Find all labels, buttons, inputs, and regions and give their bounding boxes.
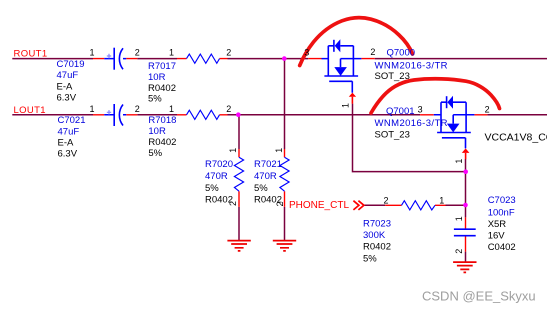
svg-text:1: 1 [454,159,464,164]
svg-text:2: 2 [275,201,285,206]
svg-text:C7019: C7019 [57,59,85,70]
svg-text:WNM2016-3/TR: WNM2016-3/TR [375,61,448,72]
svg-text:3: 3 [418,104,423,114]
svg-text:C0402: C0402 [488,242,516,253]
svg-text:1: 1 [274,148,284,153]
svg-text:SOT_23: SOT_23 [375,130,410,141]
svg-text:VCCA1V8_CODEC: VCCA1V8_CODEC [485,132,547,144]
svg-text:ROUT1: ROUT1 [14,48,48,59]
svg-text:2: 2 [228,201,238,206]
svg-text:1: 1 [228,148,238,153]
svg-text:1: 1 [341,103,351,108]
svg-text:R7023: R7023 [363,218,391,229]
svg-text:R7021: R7021 [254,159,282,170]
svg-text:300K: 300K [363,230,386,241]
svg-text:5%: 5% [148,94,162,105]
svg-text:5%: 5% [148,148,162,159]
svg-text:E-A: E-A [58,138,75,149]
svg-text:2: 2 [454,249,464,254]
svg-text:5%: 5% [205,183,219,194]
svg-text:5%: 5% [254,183,268,194]
svg-text:470R: 470R [254,171,277,182]
svg-text:PHONE_CTL: PHONE_CTL [289,200,349,211]
svg-text:10R: 10R [148,126,166,137]
svg-text:R0402: R0402 [363,242,391,253]
svg-text:R7018: R7018 [148,115,176,126]
svg-text:2: 2 [485,104,490,114]
svg-text:R7020: R7020 [205,159,233,170]
svg-text:470R: 470R [205,171,228,182]
svg-text:1: 1 [439,196,444,206]
svg-text:47uF: 47uF [58,127,80,138]
svg-text:2: 2 [226,47,231,57]
svg-text:2: 2 [384,196,389,206]
svg-text:R0402: R0402 [148,137,176,148]
svg-text:2: 2 [370,47,375,57]
svg-text:LOUT1: LOUT1 [14,105,46,116]
svg-text:WNM2016-3/TR: WNM2016-3/TR [375,118,448,129]
svg-text:2: 2 [226,104,231,114]
svg-text:1: 1 [454,216,464,221]
svg-text:3: 3 [304,47,309,57]
svg-text:2: 2 [135,104,140,114]
svg-text:1: 1 [90,47,95,57]
svg-text:R7017: R7017 [148,61,176,72]
svg-text:C7023: C7023 [488,195,516,206]
svg-text:100nF: 100nF [488,208,515,219]
svg-text:10R: 10R [148,72,166,83]
svg-text:Q7001: Q7001 [386,106,415,117]
svg-text:1: 1 [169,104,174,114]
svg-text:1: 1 [169,47,174,57]
svg-text:6.3V: 6.3V [57,92,77,103]
svg-text:SOT_23: SOT_23 [375,71,410,82]
svg-text:Q7000: Q7000 [387,48,416,59]
svg-text:47uF: 47uF [57,70,79,81]
svg-text:CSDN @EE_Skyxu: CSDN @EE_Skyxu [422,289,536,304]
svg-text:R0402: R0402 [148,83,176,94]
svg-text:2: 2 [135,47,140,57]
svg-text:C7021: C7021 [58,115,86,126]
svg-text:1: 1 [90,104,95,114]
svg-text:6.3V: 6.3V [58,149,78,160]
svg-text:X5R: X5R [488,219,507,230]
svg-text:E-A: E-A [57,81,74,92]
svg-text:5%: 5% [363,254,377,265]
svg-text:16V: 16V [488,231,506,242]
